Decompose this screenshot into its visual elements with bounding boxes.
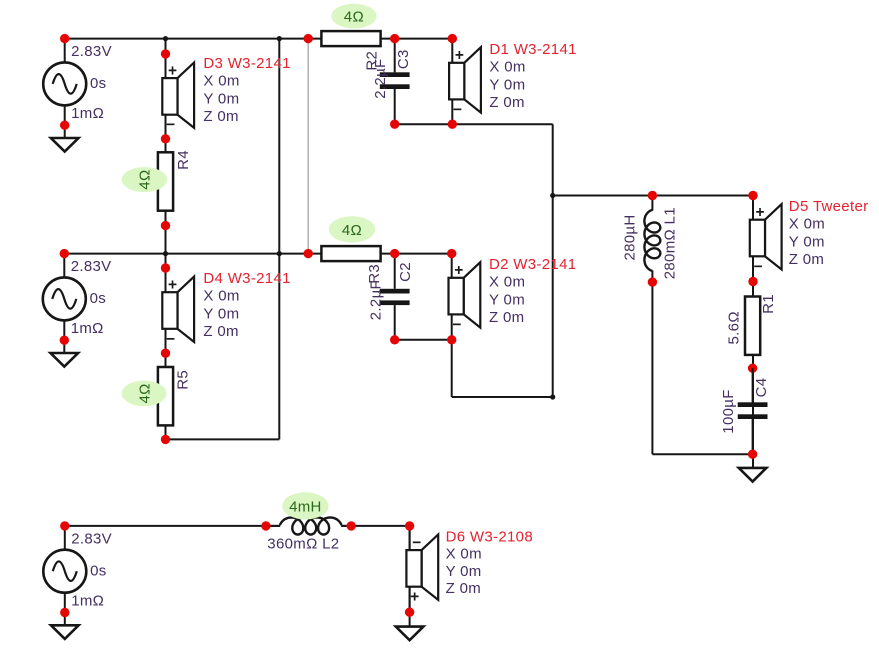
svg-text:360mΩ L2: 360mΩ L2 [267, 536, 339, 553]
wire R5 bottom to x279 [166, 438, 280, 440]
svg-text:−: − [166, 117, 175, 134]
node dot C4 bottom [748, 450, 757, 459]
svg-text:−: − [166, 331, 175, 348]
junction x279 row2 [277, 251, 282, 256]
wire vertical bus x553 [552, 124, 554, 397]
svg-text:X 0m: X 0m [203, 288, 239, 305]
wire D2 bottom jog to bus [452, 396, 553, 398]
node dots L1 pins [648, 191, 657, 200]
speaker D3 symbol [165, 54, 167, 78]
voltage source V2 2.83V [63, 254, 65, 278]
svg-text:+: + [410, 589, 419, 606]
svg-text:−: − [453, 101, 462, 118]
svg-text:0s: 0s [90, 75, 106, 92]
svg-text:D3 W3-2141: D3 W3-2141 [203, 55, 290, 72]
node dots D3 pins [161, 49, 170, 58]
wire D5 chain vertical [752, 196, 754, 468]
wire node A: C3/D1 bottom rail [395, 123, 553, 125]
junction mid rail x553 [550, 193, 555, 198]
svg-text:Z 0m: Z 0m [203, 108, 238, 125]
svg-text:X 0m: X 0m [789, 216, 825, 233]
wire D4 branch vertical [165, 254, 167, 440]
svg-text:Z 0m: Z 0m [203, 323, 238, 340]
svg-text:+: + [168, 277, 177, 294]
svg-text:D2 W3-2141: D2 W3-2141 [489, 256, 576, 273]
junction bus bottom corner [550, 394, 555, 399]
svg-text:D4 W3-2141: D4 W3-2141 [203, 270, 290, 287]
svg-text:4Ω: 4Ω [344, 9, 364, 26]
resistor R5 [158, 367, 173, 425]
svg-text:2.2µF: 2.2µF [367, 280, 384, 320]
wire C2-D2 bottom rail [395, 339, 452, 341]
voltage source V3 2.83V [64, 526, 66, 550]
svg-text:1mΩ: 1mΩ [71, 320, 104, 337]
svg-text:2.83V: 2.83V [71, 43, 112, 60]
svg-text:X 0m: X 0m [203, 73, 239, 90]
svg-text:D1 W3-2141: D1 W3-2141 [489, 41, 576, 58]
svg-text:Y 0m: Y 0m [789, 233, 825, 250]
ground under V3 [51, 625, 79, 639]
capacitor C4 [752, 368, 754, 402]
resistor R3 [321, 246, 380, 261]
node dots D5 pins [748, 191, 757, 200]
highlight value 4mH L2 [282, 492, 328, 519]
wire vertical link x279 [278, 39, 280, 440]
resistor R2 [321, 31, 380, 46]
junction D3 branch top [163, 36, 168, 41]
node dot R1 bottom pin [748, 364, 757, 373]
svg-text:4Ω: 4Ω [342, 222, 362, 239]
node dot R2 right / C3 top [390, 34, 399, 43]
node dot R2 left pin [304, 34, 313, 43]
svg-text:X 0m: X 0m [489, 274, 525, 291]
svg-text:−: − [412, 535, 421, 552]
svg-text:D6 W3-2108: D6 W3-2108 [446, 528, 533, 545]
speaker D2 symbol [451, 254, 453, 278]
svg-text:Y 0m: Y 0m [446, 563, 482, 580]
ground under V2 [51, 353, 79, 367]
svg-text:1mΩ: 1mΩ [71, 592, 104, 609]
svg-text:+: + [455, 47, 464, 64]
speaker D1 symbol [451, 39, 453, 63]
speaker D4 symbol [165, 268, 167, 292]
wire rail row2 [64, 253, 452, 255]
inductor L1 280uH [651, 196, 653, 211]
node dot R3 left pin [304, 249, 313, 258]
speaker D6 symbol [409, 526, 411, 550]
svg-text:−: − [452, 316, 461, 333]
svg-text:Z 0m: Z 0m [489, 94, 524, 111]
svg-text:X 0m: X 0m [446, 546, 482, 563]
svg-text:−: − [754, 258, 763, 275]
svg-text:C4: C4 [753, 378, 770, 398]
ground under V1 [51, 138, 79, 152]
svg-text:D5 Tweeter: D5 Tweeter [789, 198, 869, 215]
svg-text:4mH: 4mH [289, 498, 322, 515]
ground under C4 [739, 468, 767, 482]
node dots L2 pins [261, 521, 270, 530]
svg-text:0s: 0s [90, 562, 106, 579]
wire top rail row1 [65, 38, 453, 40]
resistor R4 [158, 152, 173, 210]
svg-text:0s: 0s [90, 290, 106, 307]
wire D6 chain vertical [409, 526, 411, 627]
svg-text:R4: R4 [175, 150, 192, 170]
resistor R1 [745, 297, 760, 355]
capacitor C3 [394, 39, 396, 73]
svg-text:+: + [168, 63, 177, 80]
node dot C2 bottom [390, 335, 399, 344]
node dots D6 pins [405, 521, 414, 530]
svg-text:4Ω: 4Ω [136, 383, 153, 403]
wire L1 bottom to C4 bottom [652, 453, 752, 455]
svg-text:R1: R1 [760, 294, 777, 314]
svg-text:C3: C3 [395, 49, 412, 69]
inductor L2 4mH [266, 525, 280, 527]
node dot R5 bottom pin [161, 435, 170, 444]
svg-text:280µH: 280µH [622, 214, 639, 260]
voltage source V1 2.83V [64, 39, 66, 63]
node dot R3 right / C2 top [390, 249, 399, 258]
svg-text:C2: C2 [397, 262, 414, 282]
junction D4 branch top [163, 251, 168, 256]
node dots D4 pins [161, 263, 170, 272]
capacitor C2 [394, 254, 396, 289]
svg-text:100µF: 100µF [720, 389, 737, 433]
wire D2 bottom drop [451, 340, 453, 397]
speaker D5 symbol [752, 196, 754, 220]
wire L1 branch vertical [651, 282, 653, 454]
highlight value 4ohm R5 [122, 381, 167, 407]
wire rail row3 left of L2 [65, 525, 280, 527]
svg-text:Y 0m: Y 0m [489, 76, 525, 93]
svg-text:X 0m: X 0m [489, 59, 525, 76]
ground under D6 [396, 627, 424, 641]
wire mid rail to tweeter network [553, 195, 753, 197]
svg-text:2.83V: 2.83V [71, 258, 112, 275]
svg-text:Y 0m: Y 0m [203, 90, 239, 107]
node dot R4 bottom pin [161, 221, 170, 230]
svg-text:Y 0m: Y 0m [203, 305, 239, 322]
svg-text:Z 0m: Z 0m [489, 309, 524, 326]
svg-text:5.6Ω: 5.6Ω [725, 311, 742, 344]
svg-text:2.83V: 2.83V [71, 530, 112, 547]
svg-text:Z 0m: Z 0m [789, 251, 824, 268]
junction x279 top [277, 36, 282, 41]
wire D3 branch vertical [165, 39, 167, 254]
wire thin gray link R2-R3 [307, 39, 309, 254]
wire rail row3 right of L2 [341, 525, 409, 527]
svg-text:+: + [454, 262, 463, 279]
svg-text:+: + [756, 204, 765, 221]
svg-text:R5: R5 [175, 370, 192, 390]
highlight value 4ohm R3 [329, 216, 375, 242]
svg-text:2.2µF: 2.2µF [372, 58, 389, 98]
svg-text:Y 0m: Y 0m [489, 291, 525, 308]
node dots D2 pins [447, 249, 456, 258]
highlight value 4ohm R4 [122, 167, 168, 192]
svg-text:1mΩ: 1mΩ [71, 105, 104, 122]
svg-text:4Ω: 4Ω [137, 169, 154, 189]
highlight value 4ohm R2 [331, 4, 376, 29]
node dots D1 pins [448, 34, 457, 43]
svg-text:Z 0m: Z 0m [446, 580, 481, 597]
svg-text:280mΩ L1: 280mΩ L1 [662, 207, 679, 279]
node dot C3 bottom [390, 120, 399, 129]
